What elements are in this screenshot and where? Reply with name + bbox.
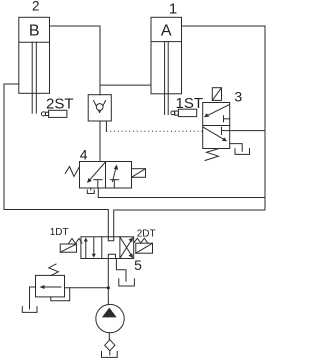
label 4 (80, 147, 88, 163)
valve 3 top square blocked port (224, 116, 230, 122)
svg-text:5: 5 (134, 257, 142, 273)
valve 4 left square arrow (87, 163, 105, 184)
valve 3 return spring (205, 149, 219, 161)
wire: cylinder B rod port to left frame (4, 83, 19, 85)
relief valve tank symbol (22, 307, 37, 313)
wire: valve 5 port T to tank (116, 259, 126, 282)
relief valve drain loop (51, 288, 70, 301)
wire: pump suction (108, 333, 110, 340)
valve 3 exhaust tank (235, 149, 250, 155)
cylinder 1 (A) (151, 17, 182, 94)
svg-text:2: 2 (32, 0, 40, 14)
relief valve pilot to tank (30, 287, 36, 309)
valve 4 return spring (65, 167, 79, 177)
junction node (107, 286, 110, 289)
label 5 (134, 257, 142, 273)
svg-text:4: 4 (80, 147, 88, 163)
svg-text:2DT: 2DT (137, 228, 156, 239)
solenoid 2DT (136, 228, 156, 253)
label 3 (234, 89, 242, 105)
wire: valve 4 bottom port line (98, 188, 265, 198)
relief valve body (36, 275, 65, 297)
valve 3 bottom square arrow (203, 127, 227, 141)
svg-text:A: A (161, 23, 172, 40)
wire: valve 5 port P to pump (107, 259, 109, 305)
valve 5 right square crossed arrows (120, 237, 133, 258)
wire: filter to tank (109, 351, 111, 355)
roller actuator of valve 3 (212, 88, 221, 101)
svg-text:3: 3 (234, 89, 242, 105)
pilot stub of check valve (105, 121, 107, 131)
valve 4 right square blocked port (110, 180, 118, 188)
valve 5 centre blocked ports (108, 237, 115, 259)
wire: left frame down to valve 5 port A (4, 84, 108, 237)
filter diamond (105, 340, 115, 351)
valve 5 left centring spring (69, 239, 83, 244)
valve 4 left square blocked port (94, 180, 102, 188)
svg-text:1DT: 1DT (50, 227, 69, 238)
wire: cylinder B cap port to check valve (50, 26, 101, 95)
limit switch 2ST (41, 95, 73, 117)
wire: branch to cylinder A rod port (100, 84, 151, 86)
cylinder 2 (B) (19, 17, 50, 93)
wire: relief valve outlet (65, 287, 109, 289)
label 2 (32, 0, 40, 14)
limit switch 1ST (171, 95, 203, 117)
valve 5 left square arrows (84, 238, 96, 258)
valve 5 right centring spring (134, 238, 148, 243)
check valve (pilot operated) (88, 95, 111, 121)
valve 3 exhaust line (230, 144, 243, 152)
valve 5 tank symbol (119, 279, 135, 286)
valve 4 right square arrow (113, 165, 119, 182)
wire: right bus vertical (264, 26, 266, 210)
wire: valve 3 output to right bus (230, 130, 265, 132)
valve 5 body (81, 237, 134, 259)
wire: cylinder A cap port to right bus (182, 25, 266, 27)
solenoid 1DT (50, 227, 77, 252)
svg-text:2ST: 2ST (46, 95, 74, 112)
wire: right bus to valve 5 port B (114, 210, 265, 237)
svg-text:1: 1 (169, 0, 177, 17)
pilot line (dotted) to valve 3 (106, 130, 202, 132)
valve 4 body (80, 162, 132, 189)
pump (96, 304, 124, 332)
valve 3 top square arrow (204, 105, 229, 118)
wire: check valve to valve 4 (99, 121, 101, 162)
valve 3 bottom square blocked port (222, 127, 230, 134)
relief valve spring (49, 264, 59, 275)
valve 4 exhaust tank (87, 188, 94, 194)
valve 3 body (203, 103, 230, 149)
label 1 (169, 0, 177, 17)
valve 4 pilot solenoid (132, 169, 146, 178)
piston rod of cylinder 1 (165, 42, 169, 115)
piston rod of cylinder 2 (32, 42, 36, 113)
svg-text:B: B (29, 23, 40, 40)
tank symbol (102, 352, 118, 358)
